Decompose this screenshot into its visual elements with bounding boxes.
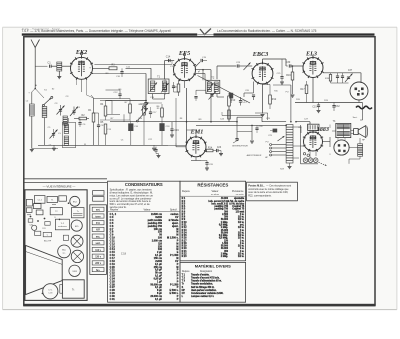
svg-text:C19: C19 <box>174 129 179 132</box>
capacitor C10 screen <box>116 68 124 78</box>
dial arrow <box>319 162 327 166</box>
wire bus y125 <box>196 125 287 127</box>
svg-text:Lampes cadran 6,3 v.: Lampes cadran 6,3 v. <box>191 296 214 298</box>
svg-text:Repère: Repère <box>182 270 190 273</box>
wire x252 drop <box>251 125 253 140</box>
svg-text:C37: C37 <box>348 70 353 72</box>
svg-text:50.000: 50.000 <box>221 246 229 248</box>
ground mid bottom <box>156 154 161 158</box>
table RESISTANCES <box>180 181 246 261</box>
layout tube EK2 top view <box>70 196 80 206</box>
svg-text:pot.: pot. <box>240 224 245 227</box>
grid cap EF5 <box>183 53 185 58</box>
svg-text:— VUE INTÉRIEURE —: — VUE INTÉRIEURE — <box>43 183 76 188</box>
label g2 <box>198 71 201 73</box>
svg-text:Bloc HF: Bloc HF <box>44 241 52 243</box>
svg-text:1/2 w.: 1/2 w. <box>238 219 245 221</box>
capacitor C33 <box>336 73 339 83</box>
ground bus main <box>38 144 168 146</box>
ground gR1 <box>152 145 156 150</box>
wire screen EK2 <box>93 73 147 75</box>
capacitor C22 <box>154 147 157 154</box>
svg-text:Haut-parleur excitation.: Haut-parleur excitation. <box>191 289 217 292</box>
wire choke bottom <box>288 163 292 169</box>
svg-text:AMORTISSEUR: AMORTISSEUR <box>247 154 262 157</box>
layout CV condenser <box>42 284 58 299</box>
svg-text:Tr: Tr <box>77 210 79 213</box>
svg-text:Puissance: Puissance <box>232 190 244 193</box>
wire T2 drop <box>210 94 212 123</box>
chassis layout box <box>25 190 87 301</box>
svg-text:Bloc: Bloc <box>62 250 66 252</box>
legend box top a <box>93 191 104 196</box>
resistor R8 EF5 cathode <box>173 80 179 96</box>
wire cathode EK2 <box>91 95 94 98</box>
wire diagonal link <box>198 76 251 104</box>
wire em1 grid <box>187 130 197 137</box>
terminal legend strip <box>90 205 107 275</box>
capacitor C8 cathode <box>94 113 105 145</box>
resistor R2 <box>74 114 89 120</box>
coil L3 switch <box>42 107 47 146</box>
layout small rect a <box>26 199 32 206</box>
wire plate EBC3 up <box>263 59 287 66</box>
layout box self <box>55 219 69 230</box>
wire mid h segments <box>94 99 163 120</box>
rectifier plate box <box>308 124 319 133</box>
wire T2 plate feed <box>202 69 204 80</box>
wire choke right links <box>293 127 304 158</box>
capacitor C18b <box>194 97 197 102</box>
wire misc segment a <box>111 101 113 115</box>
grid cap EK2 <box>80 53 82 58</box>
layout label bloc hf <box>44 241 52 243</box>
label terre <box>28 88 36 95</box>
layout tube EF5 top view <box>71 220 82 231</box>
schematic border frame <box>23 37 375 307</box>
note box remarque <box>247 182 298 201</box>
layout small rect b <box>33 204 41 209</box>
layout tube 1883 top view <box>69 265 80 276</box>
layout bloc accord circle <box>58 245 71 258</box>
svg-text:sect.: sect. <box>95 242 101 245</box>
wire avc horizontal <box>106 89 121 91</box>
switch S1 <box>35 89 53 107</box>
svg-text:Condensateur variable 2x490.: Condensateur variable 2x490. <box>191 292 224 295</box>
wire el3 grid <box>303 66 305 71</box>
layout box bloc <box>47 196 57 202</box>
power transformer T3 <box>333 121 351 138</box>
capacitor C34 <box>341 73 344 83</box>
loudspeaker plug socket <box>350 82 368 100</box>
svg-text:R 19: R 19 <box>182 246 188 248</box>
capacitor C23 EM1 <box>217 147 222 152</box>
resistor R5 avc <box>100 122 106 145</box>
wire T1 secondary to EF5 <box>165 61 175 80</box>
coil L1 antenna primary <box>57 62 62 74</box>
wire EL3 cathode <box>312 78 314 103</box>
label interrupteur <box>232 140 248 148</box>
ground R16 <box>291 95 295 97</box>
resistor R17 cathode EL3 <box>300 81 307 103</box>
svg-text:fus.: fus. <box>96 270 100 272</box>
wire x237 drop <box>236 121 238 138</box>
trimmer CT1 <box>55 103 65 116</box>
resistor R3 plate load <box>109 65 117 70</box>
capacitor C32 <box>332 103 340 112</box>
svg-text:en watts: en watts <box>236 193 244 196</box>
capacitor C12 <box>113 90 121 99</box>
svg-text:acc.: acc. <box>62 252 66 254</box>
resistor R11 volume <box>228 110 231 119</box>
wire EM1 bottom <box>191 157 207 161</box>
svg-text:à l'ét. du bloc: à l'ét. du bloc <box>229 203 244 206</box>
resistor R6c <box>164 79 166 95</box>
layout box Tr right <box>71 208 84 218</box>
svg-text:R 22: R 22 <box>182 253 188 255</box>
svg-text:1/2 w.: 1/2 w. <box>238 238 245 240</box>
ground x252 <box>250 141 254 143</box>
wire plate EK2 <box>93 68 152 79</box>
svg-text:R 16: R 16 <box>182 238 188 240</box>
ground C9 <box>144 109 148 111</box>
svg-text:C 18: C 18 <box>121 254 127 256</box>
tube EF5 <box>173 50 196 81</box>
wire EF5 cathode drop <box>168 81 187 146</box>
svg-text:1/2 w.: 1/2 w. <box>238 246 245 248</box>
svg-text:Valeur: Valeur <box>211 190 218 193</box>
svg-text:N° 175. — Rue Championnet —: N° 175. — Rue Championnet — Appareil <box>22 27 60 30</box>
layout small box e <box>63 235 68 240</box>
node y121 x186 <box>186 121 188 123</box>
switch arrow choke <box>278 136 285 141</box>
svg-text:C.V.: C.V. <box>48 289 52 291</box>
svg-text:det: det <box>229 92 232 95</box>
capacitor C31 cathode bypass <box>312 103 320 111</box>
svg-text:EM1: EM1 <box>190 129 204 136</box>
capacitor C14 grid EF5 <box>166 56 171 63</box>
trimmer CT4 <box>209 91 217 100</box>
trimmer CT3 padding <box>48 127 58 139</box>
svg-text:0,5 Még.: 0,5 Még. <box>219 238 229 240</box>
mains cord scribble <box>356 106 372 109</box>
wire rectifier heater <box>310 151 316 158</box>
column C17 R9 <box>139 103 158 145</box>
layout small rect d <box>36 210 43 215</box>
mains plug socket <box>334 140 349 155</box>
wire tone bottom <box>331 82 349 84</box>
svg-text:EL3: EL3 <box>305 50 317 57</box>
trimmer CT2 <box>70 107 81 117</box>
svg-text:Self: Self <box>280 169 284 171</box>
resistor R18 <box>325 73 332 83</box>
svg-text:C1: C1 <box>47 61 51 65</box>
svg-text:ajustable: ajustable <box>234 197 245 200</box>
svg-text:Tr: Tr <box>182 284 184 286</box>
svg-text:Tr.: Tr. <box>72 287 75 291</box>
resistor R16 <box>286 65 293 94</box>
svg-text:terre: terre <box>96 215 102 218</box>
label vue interieure <box>43 183 76 188</box>
svg-text:bob. accord 9,5 Ω: bob. accord 9,5 Ω <box>208 201 228 203</box>
svg-text:R11: R11 <box>42 228 45 230</box>
svg-text:à l'ét. du cadre: à l'ét. du cadre <box>228 200 245 203</box>
svg-text:EBC3: EBC3 <box>252 51 268 58</box>
choke tap ladder <box>270 144 287 157</box>
svg-text:2 Még.: 2 Még. <box>221 256 229 258</box>
IF transformer T1 <box>148 75 169 94</box>
svg-text:C32: C32 <box>335 106 340 108</box>
layout misc marks <box>27 202 69 235</box>
wire T2 secondary <box>217 94 224 98</box>
table CONDENSATEURS <box>108 181 180 302</box>
wire y131 link <box>237 113 268 132</box>
svg-text:R 12: R 12 <box>182 227 188 229</box>
label amortisseur <box>247 154 262 157</box>
layout speaker trapezoid <box>26 245 63 294</box>
svg-text:130 v: 130 v <box>95 257 101 259</box>
tube EM1 <box>186 129 207 158</box>
resistor R4 avc <box>100 103 106 120</box>
trimmer grid arrow <box>244 63 251 71</box>
wire EM1 grid feed <box>175 98 177 143</box>
layout transfo box <box>60 280 84 298</box>
svg-text:CONDENSATEURS: CONDENSATEURS <box>125 182 163 187</box>
wire HT to rectifier <box>295 121 310 124</box>
wire T1 bottom <box>153 94 165 99</box>
legend box top b <box>93 197 104 202</box>
svg-text:4: 4 <box>188 151 189 153</box>
layout small rect c <box>26 208 32 213</box>
svg-text:R12: R12 <box>272 98 277 101</box>
svg-text:Transfo d'entrée.: Transfo d'entrée. <box>191 273 210 276</box>
svg-text:ant.: ant. <box>96 209 100 212</box>
svg-text:CV: CV <box>182 293 186 295</box>
svg-text:C.18: C.18 <box>48 293 52 295</box>
ground antenna coil <box>57 74 61 79</box>
svg-text:40.000: 40.000 <box>221 197 229 200</box>
tube EK2 <box>70 49 93 80</box>
wire bus y100 <box>106 100 147 102</box>
svg-text:au-dessous: au-dessous <box>58 226 67 228</box>
resistor R14 EM1 <box>206 147 216 152</box>
svg-text:110 v: 110 v <box>95 250 101 252</box>
wire el3 g2 <box>312 54 314 58</box>
svg-text:1/2 w.: 1/2 w. <box>238 227 245 229</box>
resistor R10 diode load <box>228 93 236 122</box>
svg-text:MATÉRIEL DIVERS: MATÉRIEL DIVERS <box>195 264 231 269</box>
trimmer C37 tone <box>345 70 353 82</box>
svg-text:Sect.: Sect. <box>353 116 358 119</box>
svg-text:Transfo d'accord 472 kc/s.: Transfo d'accord 472 kc/s. <box>191 277 220 280</box>
svg-text:R17: R17 <box>300 89 305 91</box>
ground bus left2 <box>32 148 58 150</box>
resistor R1 cathode <box>88 98 95 145</box>
wire plate EF5 <box>195 70 211 81</box>
svg-text:Ch: Ch <box>49 145 52 147</box>
wire socket drop <box>358 100 360 103</box>
wire avc top <box>100 101 112 104</box>
loudspeaker HP <box>351 126 368 142</box>
tube EBC3 <box>252 51 274 84</box>
ground EBC3 <box>261 115 265 117</box>
double rule above layout <box>25 179 108 183</box>
wire EK2 bottom pins <box>77 78 94 98</box>
wire EL3 plate right <box>323 72 361 74</box>
capacitor C19 <box>170 122 179 135</box>
wire ef5 screen <box>192 74 205 85</box>
svg-text:C 31: C 31 <box>110 298 116 301</box>
column C18 blob <box>159 118 170 145</box>
tube EL3 <box>303 50 324 78</box>
layout small circle <box>32 225 37 230</box>
svg-text:P.U.: P.U. <box>96 223 101 225</box>
layout tube EBC3 top view <box>71 235 83 247</box>
label misc2 <box>35 84 358 156</box>
svg-text:g: g <box>89 67 90 69</box>
layout tube EL3 top view <box>71 250 83 262</box>
wire avc line <box>94 61 172 64</box>
ground C25 <box>280 82 284 84</box>
wire bus y121 <box>110 117 286 122</box>
antenna <box>31 40 40 89</box>
svg-text:R15: R15 <box>274 91 277 93</box>
capacitor C15 cathode bypass <box>172 82 179 92</box>
svg-text:exc.: exc. <box>96 236 101 238</box>
svg-text:1/2 w.: 1/2 w. <box>238 256 245 258</box>
switch S3 wave change <box>137 112 146 122</box>
ground C31 <box>317 111 321 113</box>
svg-text:R22, correspondants.: R22, correspondants. <box>248 195 272 198</box>
svg-text:R16: R16 <box>286 74 291 77</box>
svg-text:R14: R14 <box>208 147 213 149</box>
wire transformer to rectifier <box>323 131 336 147</box>
svg-text:Transfo modulation.: Transfo modulation. <box>191 283 213 286</box>
ground EM1 b <box>205 168 209 170</box>
svg-text:C28: C28 <box>29 224 32 226</box>
svg-text:1883: 1883 <box>317 126 329 133</box>
wire plate network <box>273 85 292 122</box>
svg-text:Ch: Ch <box>121 140 124 142</box>
svg-text:en ohms: en ohms <box>211 194 219 196</box>
wire to speaker socket <box>360 73 362 83</box>
wire EBC3 grid entry <box>217 66 236 79</box>
capacitor C21 <box>239 97 247 106</box>
svg-text:Repère: Repère <box>110 208 119 211</box>
svg-text:C30: C30 <box>286 61 291 64</box>
svg-text:Self de filtrage 350 Ω.: Self de filtrage 350 Ω. <box>191 286 215 289</box>
svg-text:0,1 μF: 0,1 μF <box>155 298 163 301</box>
svg-text:Repère: Repère <box>182 190 191 193</box>
wire right drop <box>360 103 363 121</box>
svg-text:HP: HP <box>362 140 366 142</box>
wire lamp bus <box>301 125 319 164</box>
wire EBC3 diode <box>244 82 254 98</box>
svg-text:C31: C31 <box>312 107 317 109</box>
header left text <box>22 27 172 33</box>
wire bus y102 <box>295 102 363 104</box>
resistor R12 grid leak <box>269 85 277 110</box>
svg-text:HP: HP <box>182 290 186 292</box>
table MATERIEL DIVERS <box>180 262 246 302</box>
svg-text:Désignation: Désignation <box>200 270 213 273</box>
wire EBC3 cathode <box>262 84 264 114</box>
capacitor C15 top <box>196 57 207 67</box>
svg-text:220 v: 220 v <box>95 263 101 265</box>
capacitor C28 <box>255 125 277 136</box>
svg-text:C23: C23 <box>217 147 222 149</box>
pen nib ornament <box>197 29 213 35</box>
svg-text:R 23: R 23 <box>182 256 188 258</box>
wire transfo sec <box>330 125 345 142</box>
column R6 right <box>157 104 164 118</box>
header rule bar left <box>22 33 197 35</box>
wire bus y114 <box>107 113 120 115</box>
svg-text:C14: C14 <box>166 56 171 59</box>
capacitor C25 tone <box>277 59 284 82</box>
coil L2 antenna series <box>26 101 34 149</box>
wire misc segment b <box>123 114 125 121</box>
wire y115 segment <box>222 112 263 116</box>
layout box antenna trimmer <box>34 196 45 204</box>
svg-text:C21: C21 <box>242 101 247 104</box>
ground EM1 <box>219 151 223 156</box>
ground far left <box>30 150 34 152</box>
svg-text:INTERRUPTEUR: INTERRUPTEUR <box>232 145 248 147</box>
column C16 R7 <box>125 99 139 146</box>
filter choke <box>280 125 293 171</box>
svg-text:1/2 watt: 1/2 watt <box>236 210 245 213</box>
capacitor C20b EM1 <box>205 161 213 168</box>
capacitor C9 screen <box>140 101 147 109</box>
label pu <box>265 142 269 160</box>
svg-text:1 Még.: 1 Még. <box>221 227 229 229</box>
wire antenna coupling <box>35 65 47 67</box>
capacitor blob C24 <box>229 93 233 103</box>
wire EM1 target <box>176 143 186 147</box>
capacitor C6 pad <box>78 119 86 128</box>
svg-text:La Documentation du Radioél: La Documentation du Radioélectricien. — … <box>217 28 317 33</box>
IF transformer T2 <box>206 76 220 94</box>
dial lamps <box>303 158 318 163</box>
svg-text:1 Még.: 1 Még. <box>221 253 229 255</box>
wire EBC3 diode link <box>263 84 271 86</box>
wire t2 region <box>196 90 206 95</box>
ground C19 <box>170 135 174 137</box>
wire antenna junction <box>32 89 35 105</box>
trimmer CT5 <box>141 103 149 111</box>
svg-text:Spécif.: Spécif. <box>170 208 178 211</box>
wire rect plate <box>302 135 312 139</box>
svg-text:RÉSISTANCES: RÉSISTANCES <box>197 183 228 188</box>
svg-text:R10: R10 <box>231 99 236 102</box>
capacitor C20 coupling <box>252 95 255 100</box>
ground gL2 <box>52 145 56 150</box>
svg-text:Transfo d'alimentation 65 w.: Transfo d'alimentation 65 w. <box>191 280 222 283</box>
layout box Tr2 <box>50 208 62 215</box>
svg-text:50.000: 50.000 <box>221 219 229 221</box>
capacitor C30 coupling EL3 <box>286 61 303 68</box>
wire osc joins <box>67 118 69 148</box>
capacitor C23 grid <box>236 62 252 68</box>
oscillator coil pair <box>58 122 75 148</box>
svg-text:1/2 w.: 1/2 w. <box>238 253 245 255</box>
svg-text:Valeur: Valeur <box>143 208 150 211</box>
svg-text:R 14: R 14 <box>182 231 188 234</box>
capacitor C1 <box>47 61 57 68</box>
svg-text:H.P.: H.P. <box>96 230 101 232</box>
wire sel bottom <box>349 159 360 164</box>
